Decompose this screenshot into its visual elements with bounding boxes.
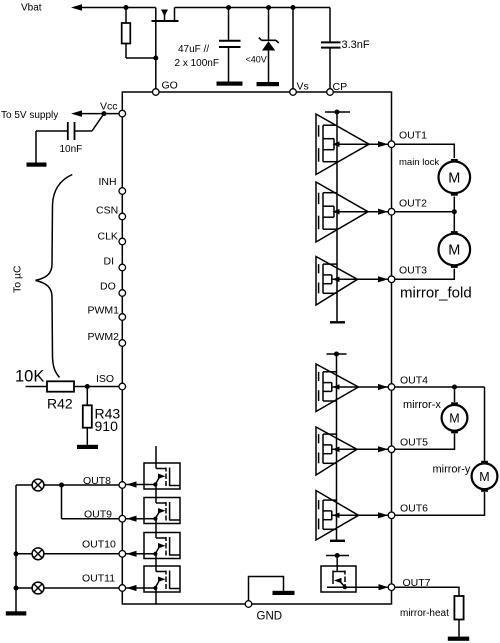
op-amp U5 driver OUT5 bbox=[316, 427, 357, 475]
lamp at OUT8 bbox=[32, 479, 44, 491]
motor M mirror-x bbox=[451, 402, 458, 408]
wire U3 driver OUT3 output arrow to pin bbox=[358, 278, 389, 280]
svg-text:10K: 10K bbox=[15, 368, 44, 386]
svg-text:CSN: CSN bbox=[96, 205, 118, 217]
ground bar below R43 bbox=[77, 445, 98, 449]
wire U6 driver OUT6 output arrow to pin bbox=[359, 514, 389, 516]
supply bar for drivers OUT4-6 bbox=[327, 353, 347, 355]
wire U1 driver OUT1 output arrow to pin bbox=[369, 143, 388, 145]
pin ISO bbox=[119, 383, 126, 390]
svg-text:M: M bbox=[479, 470, 489, 484]
resistor reverse-protection (top-left vertical) bbox=[125, 8, 127, 24]
wire OUT10 line bbox=[16, 553, 122, 555]
motor M mirror-fold lower bbox=[451, 231, 458, 237]
ground bar at GND bbox=[273, 591, 295, 595]
pin GO bbox=[153, 89, 160, 96]
op-amp U4 driver OUT4 bbox=[316, 364, 359, 412]
svg-text:mirror-heat: mirror-heat bbox=[400, 608, 449, 619]
wire chain between boxes bbox=[155, 559, 157, 567]
wire U5 driver OUT5 output arrow to pin bbox=[357, 448, 388, 450]
svg-text:PWM2: PWM2 bbox=[88, 331, 120, 343]
ground bar below 10nF bbox=[27, 163, 47, 167]
wire Vbat top rail with arrow bbox=[71, 4, 82, 11]
wire OUT11 line bbox=[16, 587, 122, 589]
svg-text:ISO: ISO bbox=[96, 373, 114, 385]
ground bar below zener bbox=[257, 82, 280, 86]
svg-text:2 x 100nF: 2 x 100nF bbox=[175, 58, 219, 69]
transistor box OUT7 MOSFET bbox=[321, 566, 356, 592]
wire internal chain stub above OUT8 box bbox=[155, 446, 157, 463]
wire MOSFET node down to GO pin bbox=[155, 58, 157, 92]
wire driver rail OUT1-3 bbox=[336, 112, 338, 322]
op-amp U2 driver OUT2 bbox=[316, 182, 368, 242]
wire motor2 to OUT3 bbox=[392, 269, 455, 280]
svg-text:main lock: main lock bbox=[399, 157, 439, 168]
wire mirror-y to OUT6 bbox=[392, 492, 485, 515]
svg-text:To µC: To µC bbox=[12, 265, 24, 293]
svg-text:OUT5: OUT5 bbox=[400, 437, 428, 449]
svg-text:OUT9: OUT9 bbox=[84, 509, 112, 521]
pin OUT4 bbox=[388, 384, 395, 391]
junction lamp rail OUT11 bbox=[14, 586, 19, 591]
pin PWM1 bbox=[119, 314, 126, 321]
svg-text:3.3nF: 3.3nF bbox=[342, 39, 370, 51]
capacitor 3.3nF bbox=[329, 8, 331, 43]
resistor R43 910 bbox=[86, 387, 88, 406]
svg-text:Vs: Vs bbox=[297, 81, 309, 93]
transistor box OUT11 low-side MOSFET bbox=[144, 566, 180, 592]
svg-text:OUT10: OUT10 bbox=[82, 539, 116, 551]
transistor box OUT10 low-side MOSFET bbox=[144, 533, 180, 559]
svg-text:OUT3: OUT3 bbox=[399, 265, 427, 277]
pin Vs bbox=[290, 89, 297, 96]
junction top rail at Vs drop bbox=[291, 5, 296, 10]
pin OUT10 bbox=[119, 551, 126, 558]
pin DI bbox=[119, 264, 126, 271]
wire OUT1 to motor main-lock bbox=[392, 144, 455, 158]
op-amp U1 driver OUT1 bbox=[316, 114, 369, 175]
op-amp U3 driver OUT3 bbox=[316, 257, 358, 306]
motor M main-lock bbox=[451, 159, 458, 165]
pin OUT7 bbox=[388, 584, 395, 591]
op-amp U6 driver OUT6 bbox=[316, 491, 359, 541]
svg-text:47uF //: 47uF // bbox=[178, 44, 209, 55]
transistor box OUT9 low-side MOSFET bbox=[144, 498, 180, 524]
pin OUT3 bbox=[388, 276, 395, 283]
wire rail down to Vs pin bbox=[292, 8, 294, 93]
pin CSN bbox=[119, 213, 126, 220]
svg-text:mirror-x: mirror-x bbox=[403, 399, 441, 411]
resistor mirror-heat bbox=[454, 596, 463, 620]
lamp at OUT11 bbox=[32, 582, 44, 594]
transistor box OUT8 low-side MOSFET bbox=[144, 463, 180, 489]
wire OUT11 box to IC bottom rail bbox=[155, 592, 157, 604]
pin DO bbox=[119, 290, 126, 297]
svg-text:Vbat: Vbat bbox=[21, 3, 42, 14]
wire chain between boxes bbox=[155, 489, 157, 498]
ground bar below mirror-heat bbox=[448, 637, 469, 641]
junction lamp rail OUT10 bbox=[14, 551, 19, 556]
junction top rail at zener bbox=[266, 5, 271, 10]
svg-text:OUT11: OUT11 bbox=[82, 573, 115, 585]
ground bar driver rail OUT1-3 bbox=[330, 321, 345, 323]
svg-text:910: 910 bbox=[95, 418, 119, 434]
svg-text:Vcc: Vcc bbox=[100, 101, 118, 113]
svg-text:M: M bbox=[449, 411, 459, 425]
resistor R42 10K bbox=[26, 386, 48, 388]
supply bar for OUT7 MOSFET bbox=[326, 555, 349, 557]
wire lamp rail left vertical bbox=[15, 485, 17, 612]
svg-text:OUT6: OUT6 bbox=[400, 503, 428, 515]
wire mirror-x to OUT5 bbox=[392, 434, 455, 450]
svg-text:OUT2: OUT2 bbox=[399, 198, 427, 210]
ground bar driver rail OUT4-6 bbox=[330, 540, 345, 542]
zener diode <40V bbox=[268, 8, 270, 41]
junction at GO node bbox=[153, 56, 158, 61]
svg-text:CLK: CLK bbox=[98, 231, 118, 243]
svg-text:DI: DI bbox=[104, 256, 115, 268]
svg-text:M: M bbox=[448, 243, 460, 259]
svg-text:OUT7: OUT7 bbox=[403, 577, 431, 589]
junction OUT8/OUT9 tie bbox=[59, 483, 64, 488]
pin OUT6 bbox=[388, 512, 395, 519]
junction top rail at 47uF bbox=[226, 5, 231, 10]
wire pin arrow into OUT10 bbox=[122, 553, 144, 555]
ground bar below 47uF bbox=[217, 82, 243, 86]
wire pin arrow into OUT9 bbox=[122, 518, 144, 520]
pin OUT5 bbox=[388, 446, 395, 453]
svg-text:GO: GO bbox=[162, 80, 178, 92]
IC body outline bbox=[122, 92, 391, 604]
wire U4 driver OUT4 output arrow to pin bbox=[359, 386, 389, 388]
pin Vcc bbox=[119, 110, 126, 117]
svg-text:CP: CP bbox=[333, 81, 348, 93]
wire right branch down to mirror-y bbox=[484, 387, 486, 461]
wire pin arrow into OUT8 bbox=[122, 484, 144, 486]
capacitor 47uF // 2x100nF bbox=[228, 8, 230, 41]
wire pin arrow into OUT11 bbox=[122, 587, 144, 589]
svg-text:OUT4: OUT4 bbox=[400, 375, 428, 387]
wire resistor bottom to MOSFET source node bbox=[126, 57, 156, 59]
wire driver rail OUT4-6 bbox=[336, 354, 338, 540]
svg-text:GND: GND bbox=[257, 611, 283, 623]
junction top rail at reservoir resistor bbox=[124, 5, 129, 10]
svg-text:OUT8: OUT8 bbox=[83, 475, 111, 487]
motor M mirror-y bbox=[481, 461, 488, 467]
pin CLK bbox=[119, 238, 126, 245]
svg-text:PWM1: PWM1 bbox=[88, 305, 120, 317]
svg-text:INH: INH bbox=[99, 176, 117, 188]
pin INH bbox=[119, 188, 126, 195]
wire Vcc to 5V supply with arrow bbox=[71, 110, 82, 117]
svg-text:R42: R42 bbox=[47, 396, 73, 412]
wire OUT7 to mirror-heat resistor bbox=[392, 587, 460, 596]
junction Vcc node bbox=[102, 111, 107, 116]
pin OUT8 bbox=[119, 482, 126, 489]
svg-text:mirror-y: mirror-y bbox=[433, 464, 471, 476]
svg-text:<40V: <40V bbox=[246, 55, 267, 65]
junction ISO node bbox=[85, 384, 90, 389]
svg-text:DO: DO bbox=[100, 281, 116, 293]
wire U2 driver OUT2 output arrow to pin bbox=[368, 211, 388, 213]
pin GND bbox=[245, 601, 252, 608]
ground bar lamp rail bbox=[6, 611, 27, 615]
supply bar for drivers OUT1-3 bbox=[325, 111, 350, 113]
pin OUT1 bbox=[388, 141, 395, 148]
pin OUT11 bbox=[119, 585, 126, 592]
pin OUT2 bbox=[388, 208, 395, 215]
svg-text:M: M bbox=[448, 171, 460, 187]
wire OUT7 box output arrow to pin bbox=[356, 586, 388, 588]
wire chain between boxes bbox=[155, 524, 157, 533]
wire diagonal Vcc node to 10nF bbox=[92, 114, 104, 131]
lamp at OUT10 bbox=[32, 548, 44, 560]
pin CP bbox=[327, 89, 334, 96]
svg-text:OUT1: OUT1 bbox=[399, 130, 427, 142]
capacitor 10nF bbox=[74, 122, 76, 140]
wire GND pin step to ground bbox=[249, 577, 284, 605]
wire OUT4 to mirror-x and right branch bbox=[392, 386, 485, 388]
wire motor chain OUT2 junction bbox=[453, 197, 455, 234]
wire OUT8 line bbox=[16, 484, 122, 486]
brace To uC bbox=[36, 175, 73, 378]
svg-text:10nF: 10nF bbox=[60, 144, 83, 155]
pin OUT9 bbox=[119, 515, 126, 522]
svg-text:mirror_fold: mirror_fold bbox=[400, 285, 472, 302]
wire OUT9 tie-down and line bbox=[61, 485, 63, 519]
pin PWM2 bbox=[119, 340, 126, 347]
transistor M1 reverse-battery MOSFET bbox=[155, 8, 157, 22]
svg-text:To 5V supply: To 5V supply bbox=[1, 110, 58, 121]
